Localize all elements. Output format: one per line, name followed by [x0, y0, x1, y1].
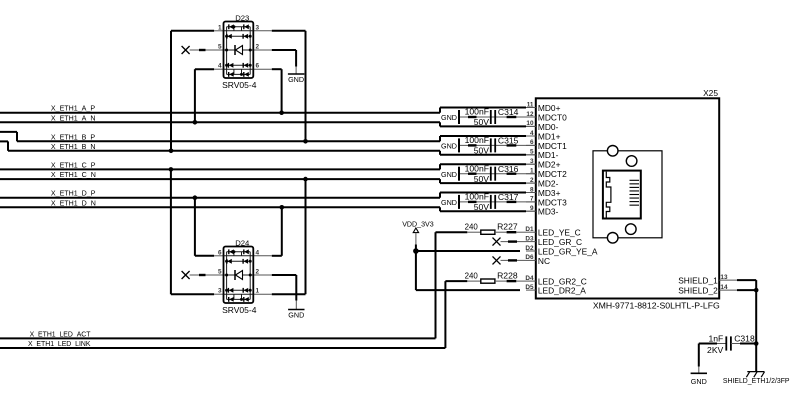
svg-text:X_ETH1_A_N: X_ETH1_A_N [51, 114, 96, 122]
svg-text:10: 10 [526, 120, 534, 127]
svg-text:SRV05-4: SRV05-4 [222, 305, 257, 315]
svg-text:SHIELD_ETH1/2/3FP: SHIELD_ETH1/2/3FP [723, 378, 790, 385]
svg-text:C317: C317 [498, 192, 519, 202]
svg-text:C316: C316 [498, 164, 519, 174]
svg-text:D2: D2 [525, 245, 534, 252]
svg-text:8: 8 [530, 186, 534, 193]
svg-text:14: 14 [720, 284, 728, 291]
svg-text:GND: GND [441, 198, 457, 207]
svg-text:X_ETH1_B_P: X_ETH1_B_P [51, 133, 95, 141]
svg-text:LED_DR2_A: LED_DR2_A [538, 286, 586, 296]
svg-text:D4: D4 [525, 275, 534, 282]
svg-text:5: 5 [218, 44, 222, 51]
svg-text:2KV: 2KV [707, 345, 724, 355]
svg-text:C318: C318 [734, 334, 755, 344]
svg-text:D24: D24 [235, 238, 250, 247]
svg-text:D5: D5 [525, 284, 534, 291]
svg-text:SRV05-4: SRV05-4 [222, 80, 257, 90]
svg-text:X_ETH1_B_N: X_ETH1_B_N [51, 143, 96, 151]
svg-text:4: 4 [218, 63, 222, 70]
svg-text:1: 1 [530, 168, 534, 175]
svg-text:9: 9 [530, 205, 534, 212]
svg-text:5: 5 [530, 149, 534, 156]
svg-text:D1: D1 [525, 226, 534, 233]
svg-text:C315: C315 [498, 136, 519, 146]
svg-text:12: 12 [526, 111, 534, 118]
svg-text:1: 1 [218, 24, 222, 31]
svg-text:100nF: 100nF [465, 135, 489, 145]
svg-text:SHIELD_2: SHIELD_2 [678, 285, 718, 295]
svg-text:3: 3 [256, 24, 260, 31]
svg-text:7: 7 [530, 196, 534, 203]
svg-text:6: 6 [256, 63, 260, 70]
svg-text:C314: C314 [498, 107, 519, 117]
svg-text:6: 6 [218, 249, 222, 256]
svg-text:GND: GND [288, 311, 304, 320]
svg-text:5: 5 [218, 269, 222, 276]
svg-text:GND: GND [441, 170, 457, 179]
svg-text:D3: D3 [525, 235, 534, 242]
svg-text:2: 2 [530, 177, 534, 184]
svg-text:NC: NC [538, 256, 550, 266]
svg-text:4: 4 [530, 130, 534, 137]
svg-text:R227: R227 [497, 222, 518, 232]
svg-text:GND: GND [441, 142, 457, 151]
svg-text:MD2+: MD2+ [538, 160, 561, 170]
svg-text:X_ETH1_LED_ACT: X_ETH1_LED_ACT [30, 331, 92, 338]
svg-text:50V: 50V [474, 202, 490, 212]
svg-text:3: 3 [218, 288, 222, 295]
svg-text:2: 2 [256, 44, 260, 51]
svg-text:VDD_3V3: VDD_3V3 [402, 221, 434, 229]
svg-text:240: 240 [465, 223, 479, 232]
svg-text:X_ETH1_D_N: X_ETH1_D_N [51, 199, 96, 207]
svg-text:SHIELD_1: SHIELD_1 [678, 275, 718, 285]
svg-text:100nF: 100nF [465, 163, 489, 173]
svg-text:50V: 50V [474, 174, 490, 184]
svg-text:100nF: 100nF [465, 192, 489, 202]
svg-text:1: 1 [256, 288, 260, 295]
svg-text:MD0-: MD0- [538, 122, 559, 132]
svg-text:GND: GND [288, 75, 304, 84]
svg-text:GND: GND [441, 113, 457, 122]
svg-text:4: 4 [256, 249, 260, 256]
svg-text:D6: D6 [525, 254, 534, 261]
svg-text:100nF: 100nF [465, 107, 489, 117]
svg-text:R228: R228 [497, 271, 518, 281]
svg-text:240: 240 [465, 272, 479, 281]
svg-text:2: 2 [256, 269, 260, 276]
svg-text:X_ETH1_C_N: X_ETH1_C_N [51, 171, 96, 179]
svg-text:X_ETH1_D_P: X_ETH1_D_P [51, 190, 96, 198]
svg-text:X_ETH1_C_P: X_ETH1_C_P [51, 161, 96, 169]
svg-text:MD0+: MD0+ [538, 103, 561, 113]
svg-text:D23: D23 [235, 13, 249, 22]
svg-text:X_ETH1_A_P: X_ETH1_A_P [51, 105, 95, 113]
svg-text:13: 13 [720, 274, 728, 281]
svg-text:XMH-9771-8812-S0LHTL-P-LFG: XMH-9771-8812-S0LHTL-P-LFG [593, 300, 720, 310]
svg-text:X_ETH1_LED_LINK: X_ETH1_LED_LINK [28, 341, 91, 348]
svg-text:MD3-: MD3- [538, 207, 559, 217]
svg-text:GND: GND [691, 377, 707, 386]
svg-text:50V: 50V [474, 146, 490, 156]
svg-text:1nF: 1nF [708, 334, 723, 344]
svg-text:X25: X25 [703, 88, 718, 98]
svg-text:50V: 50V [474, 117, 490, 127]
svg-text:6: 6 [530, 139, 534, 146]
svg-text:3: 3 [530, 158, 534, 165]
svg-text:11: 11 [527, 101, 534, 108]
